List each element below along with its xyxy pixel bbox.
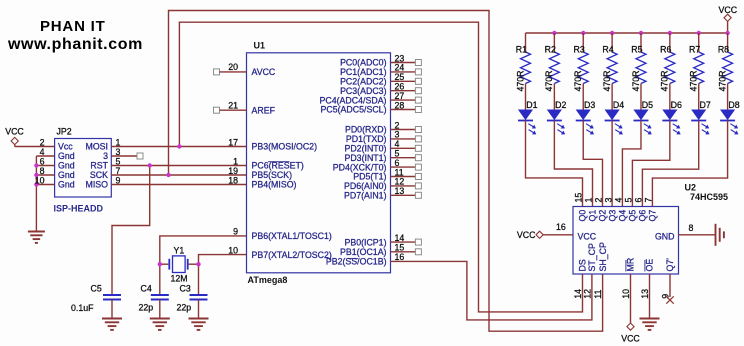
svg-text:13: 13 — [640, 289, 650, 299]
svg-text:10: 10 — [621, 289, 631, 299]
ground (U2 pin 8) — [716, 224, 724, 246]
U1 pin 13 PD7(AIN1) — [344, 186, 421, 200]
junction dot rail R5 — [639, 31, 643, 35]
wire D4 to U2 pin — [611, 121, 613, 207]
svg-text:D4: D4 — [613, 100, 624, 110]
svg-text:13: 13 — [395, 186, 405, 196]
pin 20 AVCC — [214, 62, 276, 77]
svg-text:16: 16 — [556, 222, 566, 232]
svg-text:JP2: JP2 — [57, 127, 72, 137]
svg-text:Q5: Q5 — [628, 210, 638, 222]
U2 pin 3 Q3 — [603, 198, 617, 222]
U1 pin 4 PD2(INT0) — [344, 139, 421, 153]
U2 pin 6 Q6 — [634, 198, 648, 222]
svg-text:R8: R8 — [718, 45, 729, 55]
svg-text:MISO: MISO — [86, 180, 109, 190]
U2 pin 16 VCC — [517, 222, 597, 242]
wire U2.Q7' stub — [669, 274, 671, 297]
svg-text:17: 17 — [228, 137, 238, 147]
resistor R5 470R — [631, 33, 646, 92]
pin 21 AREF — [214, 101, 276, 116]
svg-text:R4: R4 — [602, 45, 613, 55]
capacitor C5 — [71, 284, 121, 314]
svg-text:19: 19 — [228, 166, 238, 176]
svg-text:2: 2 — [40, 137, 45, 147]
resistor R2 470R — [544, 33, 559, 92]
wire RST to C5 — [112, 166, 150, 296]
svg-text:5: 5 — [624, 198, 634, 203]
no-ERC cross Q7' — [666, 296, 673, 303]
U1 pin 25 PC2(ADC2) — [340, 72, 421, 86]
wire XTAL2 (U1.10) — [199, 255, 247, 295]
U1 pin 28 PC5(ADC5/SCL) — [321, 100, 422, 114]
svg-text:D3: D3 — [584, 100, 595, 110]
svg-text:VCC: VCC — [719, 5, 738, 15]
wire C4 to ground — [159, 300, 161, 319]
crystal Y1 — [160, 246, 199, 284]
U1 pin 5 PD3(INT1) — [344, 149, 421, 163]
wire U2.MR to VCC — [630, 274, 632, 323]
svg-text:12M: 12M — [171, 274, 188, 284]
svg-text:www.phanit.com: www.phanit.com — [7, 36, 143, 53]
svg-text:D5: D5 — [642, 100, 653, 110]
svg-text:SH_CP: SH_CP — [598, 242, 608, 271]
svg-text:C5: C5 — [91, 284, 102, 294]
svg-text:D1: D1 — [526, 100, 537, 110]
wire VCC to JP2 pin2 — [15, 145, 55, 147]
svg-text:1: 1 — [233, 156, 238, 166]
U1 pin 14 PB0(ICP1) — [344, 233, 421, 247]
svg-text:8: 8 — [689, 223, 694, 233]
svg-text:ST_CP: ST_CP — [587, 243, 597, 271]
wire U2.OE to ground — [649, 274, 651, 319]
junction dot RST — [148, 163, 152, 167]
wire MOSI net (JP2.1 to U1.17) — [111, 146, 246, 148]
U2 pin 1 Q1 — [584, 198, 598, 222]
svg-text:470R: 470R — [573, 70, 583, 91]
wire RST net (JP2.5 to U1.1) — [111, 165, 246, 167]
junction dots gnd bus — [34, 163, 38, 186]
U2 pin 4 Q4 — [614, 198, 628, 222]
svg-text:18: 18 — [228, 175, 238, 185]
wire D5 to U2 pin — [622, 121, 641, 207]
op-amp U1 ATmega8 body — [247, 41, 391, 286]
wire R4 to D4 — [611, 84, 613, 111]
svg-text:3: 3 — [603, 198, 613, 203]
resistor R4 470R — [602, 33, 617, 92]
svg-text:PB1(OC1A): PB1(OC1A) — [340, 247, 387, 257]
svg-text:R3: R3 — [573, 45, 584, 55]
svg-text:PB0(ICP1): PB0(ICP1) — [344, 237, 386, 247]
U1 pin 16 PB2(SS/OC1B) — [326, 252, 405, 266]
svg-text:PB4(MISO): PB4(MISO) — [252, 180, 297, 190]
svg-text:R7: R7 — [689, 45, 700, 55]
svg-text:9: 9 — [661, 294, 671, 299]
wire VCC rail — [526, 32, 728, 34]
U1 pin 26 PC3(ADC3) — [340, 82, 421, 96]
svg-text:Gnd: Gnd — [58, 170, 75, 180]
wire D6 to U2 pin — [632, 121, 669, 207]
capacitor C4 — [139, 284, 169, 313]
svg-text:R2: R2 — [545, 45, 556, 55]
svg-text:C4: C4 — [141, 284, 152, 294]
svg-text:Q0: Q0 — [578, 210, 588, 222]
svg-text:10: 10 — [228, 245, 238, 255]
U1 pin 6 PD4(XCK/T0) — [333, 158, 422, 172]
svg-text:9: 9 — [233, 227, 238, 237]
junction dot rail R4 — [610, 31, 614, 35]
svg-text:SCK: SCK — [90, 170, 108, 180]
U1 pin 15 PB1(OC1A) — [340, 243, 421, 257]
wire R7 to D7 — [698, 84, 700, 111]
shift register U2 74HC595 body — [573, 183, 728, 275]
U2 pin 12 ST_CP — [583, 243, 598, 299]
wire R1 to D1 — [525, 84, 527, 111]
U1 pin 17 PB3(MOSI/OC2) — [228, 137, 317, 151]
junction dot rail R2 — [552, 31, 556, 35]
wire MOSI wrap to U2.DS — [179, 22, 582, 312]
svg-text:ISP-HEADD: ISP-HEADD — [54, 204, 104, 214]
svg-text:PB6(XTAL1/TOSC1): PB6(XTAL1/TOSC1) — [252, 231, 332, 241]
svg-text:Q1: Q1 — [588, 210, 598, 222]
wire D8 to U2 pin — [652, 121, 727, 207]
svg-text:21: 21 — [228, 101, 238, 111]
svg-text:1: 1 — [584, 198, 594, 203]
svg-text:12: 12 — [583, 289, 593, 299]
junction dot crystal right — [196, 262, 200, 266]
svg-text:20: 20 — [228, 62, 238, 72]
U2 pin 9 Q7' — [661, 258, 676, 299]
ground (JP2) — [28, 232, 45, 243]
junction dot rail R3 — [581, 31, 585, 35]
svg-text:11: 11 — [593, 290, 603, 299]
wire SCK net (JP2.7 to U1.19) — [111, 174, 246, 176]
power VCC (JP2) — [5, 127, 24, 145]
ground (C5) — [102, 319, 122, 330]
svg-text:470R: 470R — [544, 70, 554, 91]
resistor R8 470R — [717, 33, 732, 92]
svg-text:0.1uF: 0.1uF — [71, 303, 94, 313]
svg-text:AVCC: AVCC — [252, 67, 276, 77]
svg-text:PB2(SS/OC1B): PB2(SS/OC1B) — [326, 257, 387, 267]
wire C5 to ground — [111, 300, 113, 319]
U1 pin 23 PC0(ADC0) — [340, 53, 421, 67]
wire D3 to U2 pin — [583, 121, 602, 207]
svg-text:14: 14 — [395, 233, 405, 243]
LED D1 — [518, 100, 538, 134]
svg-text:MR: MR — [626, 258, 636, 272]
svg-text:470R: 470R — [602, 70, 612, 91]
U2 pin 5 Q5 — [624, 198, 638, 222]
junction dot SCK — [166, 173, 170, 177]
svg-text:Y1: Y1 — [174, 246, 185, 256]
U2 pin 10 MR — [621, 258, 636, 299]
svg-text:VCC: VCC — [5, 127, 24, 137]
svg-text:U1: U1 — [254, 41, 266, 51]
svg-text:22p: 22p — [177, 303, 192, 313]
LED D4 — [605, 100, 625, 134]
LED D7 — [691, 100, 711, 134]
junction dot rail R8 — [725, 31, 729, 35]
svg-text:470R: 470R — [717, 70, 727, 91]
ground bus JP2 — [36, 156, 54, 232]
svg-text:PB7(XTAL2/TOSC2): PB7(XTAL2/TOSC2) — [252, 250, 332, 260]
U2 pin 14 DS — [573, 259, 588, 299]
U2 pin 7 Q7 — [644, 198, 658, 222]
svg-text:Q7': Q7' — [665, 258, 675, 272]
svg-text:15: 15 — [395, 243, 405, 253]
svg-text:Q7: Q7 — [648, 210, 658, 222]
U1 pin 9 PB6(XTAL1/TOSC1) — [233, 227, 332, 241]
LED D2 — [547, 100, 567, 134]
svg-text:VCC: VCC — [621, 334, 640, 344]
connector JP2 — [35, 127, 121, 198]
svg-text:4: 4 — [40, 147, 45, 157]
svg-text:Q4: Q4 — [618, 210, 628, 222]
resistor R1 470R — [515, 33, 530, 92]
svg-text:2: 2 — [594, 198, 604, 203]
resistor R6 470R — [660, 33, 675, 92]
svg-text:C3: C3 — [180, 284, 191, 294]
svg-text:VCC: VCC — [578, 231, 597, 241]
svg-text:6: 6 — [634, 198, 644, 203]
svg-text:Gnd: Gnd — [58, 161, 75, 171]
svg-text:Gnd: Gnd — [58, 180, 75, 190]
svg-text:D8: D8 — [728, 100, 739, 110]
ground (U2 OE) — [640, 319, 660, 330]
LED D3 — [576, 100, 596, 134]
U1 pin 2 PD0(RXD) — [345, 120, 421, 134]
svg-text:10: 10 — [35, 175, 45, 185]
svg-text:RST: RST — [90, 161, 108, 171]
svg-text:PB3(MOSI/OC2): PB3(MOSI/OC2) — [252, 142, 318, 152]
U1 pin 12 PD6(AIN0) — [344, 177, 421, 191]
U1 pin 11 PD5(T1) — [353, 167, 421, 181]
wire XTAL1 (U1.9) — [160, 236, 247, 295]
U1 pin 10 PB7(XTAL2/TOSC2) — [228, 245, 332, 259]
svg-text:D6: D6 — [671, 100, 682, 110]
svg-text:74HC595: 74HC595 — [690, 192, 728, 202]
svg-text:7: 7 — [644, 198, 654, 203]
svg-text:470R: 470R — [689, 70, 699, 91]
U1 pin 18 PB4(MISO) — [228, 175, 296, 189]
svg-text:6: 6 — [40, 156, 45, 166]
resistor R7 470R — [689, 33, 704, 92]
svg-text:R1: R1 — [516, 45, 527, 55]
U1 pin 1 PC6(RESET) — [233, 156, 304, 170]
svg-text:3: 3 — [103, 151, 108, 161]
svg-text:OE: OE — [645, 259, 655, 272]
wire JP2 pin3 stub — [111, 155, 137, 157]
U1 pin 3 PD1(TXD) — [346, 130, 421, 144]
junction dot crystal left — [158, 262, 162, 266]
svg-text:PB5(SCK): PB5(SCK) — [252, 170, 293, 180]
capacitor C3 — [177, 284, 208, 313]
U1 pin 27 PC4(ADC4/SDA) — [320, 91, 422, 105]
resistor R3 470R — [573, 33, 588, 92]
svg-text:Gnd: Gnd — [58, 151, 75, 161]
LED D6 — [662, 100, 682, 134]
svg-text:AREF: AREF — [252, 105, 276, 115]
wire C3 to ground — [198, 300, 200, 319]
svg-text:ATmega8: ATmega8 — [248, 275, 288, 285]
U2 pin 11 SH_CP — [593, 242, 608, 299]
svg-text:470R: 470R — [660, 70, 670, 91]
junction dot rail R7 — [697, 31, 701, 35]
svg-text:VCC: VCC — [517, 230, 536, 240]
svg-text:PHAN IT: PHAN IT — [40, 18, 106, 35]
svg-text:4: 4 — [614, 198, 624, 203]
svg-text:PC5(ADC5/SCL): PC5(ADC5/SCL) — [321, 105, 387, 115]
svg-text:PC6(RESET): PC6(RESET) — [252, 161, 304, 171]
ground (C3) — [189, 319, 209, 330]
svg-text:Q2: Q2 — [598, 210, 608, 222]
wire R6 to D6 — [669, 84, 671, 111]
svg-text:Q6: Q6 — [638, 210, 648, 222]
U1 pin 19 PB5(SCK) — [228, 166, 292, 180]
svg-text:MOSI: MOSI — [86, 142, 108, 152]
power VCC (U2 MR) — [621, 323, 640, 344]
junction dot rail R6 — [668, 31, 672, 35]
junction dot MOSI — [177, 144, 181, 148]
ground (C4) — [150, 319, 170, 330]
no-connect square JP2.3 — [137, 153, 143, 159]
svg-text:PD7(AIN1): PD7(AIN1) — [344, 191, 387, 201]
svg-text:15: 15 — [574, 193, 584, 203]
svg-text:Vcc: Vcc — [58, 142, 73, 152]
svg-text:470R: 470R — [631, 70, 641, 91]
wire R2 to D2 — [553, 84, 555, 111]
svg-text:8: 8 — [40, 166, 45, 176]
wire R8 to D8 — [727, 84, 729, 111]
U2 pin 15 Q0 — [574, 193, 588, 222]
U2 pin 2 Q2 — [594, 198, 608, 222]
svg-text:R6: R6 — [660, 45, 671, 55]
LED D8 — [720, 100, 740, 134]
wire SCK wrap to U2.SH_CP — [169, 11, 603, 332]
svg-text:470R: 470R — [515, 70, 525, 91]
svg-text:D7: D7 — [700, 100, 711, 110]
power VCC (rail) — [719, 5, 738, 33]
svg-text:U2: U2 — [685, 183, 697, 193]
wire D2 to U2 pin — [554, 121, 592, 207]
U2 pin 8 GND — [655, 223, 715, 241]
svg-text:28: 28 — [395, 100, 405, 110]
svg-text:22p: 22p — [139, 303, 154, 313]
svg-text:D2: D2 — [555, 100, 566, 110]
wire D1 to U2 pin — [526, 121, 583, 207]
wire R5 to D5 — [640, 84, 642, 111]
wire R3 to D3 — [582, 84, 584, 111]
wire MISO net (JP2.9 to U1.18) — [111, 184, 246, 186]
LED D5 — [633, 100, 653, 134]
U1 pin 24 PC1(ADC1) — [340, 63, 421, 77]
wire PB2 to U2.ST_CP — [391, 261, 592, 320]
svg-text:GND: GND — [655, 231, 675, 241]
svg-text:Q3: Q3 — [607, 210, 617, 222]
svg-text:R5: R5 — [631, 45, 642, 55]
wire D7 to U2 pin — [642, 121, 698, 207]
U2 pin 13 OE — [640, 259, 655, 299]
